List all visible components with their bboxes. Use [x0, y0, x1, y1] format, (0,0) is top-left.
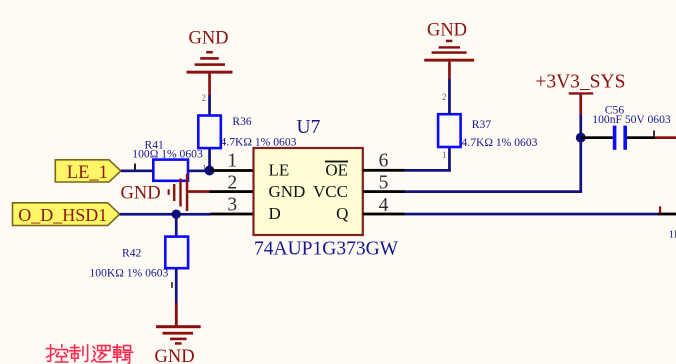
wire net Q to right: [405, 213, 659, 216]
wire O_D_HSD1 to junction: [120, 213, 211, 216]
wire pin 4 stub: [363, 213, 405, 216]
wire pin 5 stub: [363, 190, 405, 193]
svg-text:GND: GND: [427, 21, 467, 41]
port LE_1: [55, 160, 121, 182]
port O_D_HSD1: [13, 203, 120, 226]
svg-text:Q: Q: [336, 204, 348, 223]
R41 pin 1 marker: [134, 164, 136, 170]
junction node net LE_1: [205, 166, 215, 176]
junction node net +3V3_SYS: [576, 133, 586, 143]
svg-text:GND: GND: [188, 29, 228, 49]
wire pin 2 to U7: [210, 190, 254, 193]
wire pin 1 to U7: [210, 169, 254, 172]
svg-text:VCC: VCC: [313, 182, 348, 201]
svg-text:D: D: [269, 204, 281, 223]
resistor R36: [198, 116, 221, 149]
svg-text:1P: 1P: [669, 228, 676, 240]
svg-text:+3V3_SYS: +3V3_SYS: [535, 72, 625, 93]
wire GND to R36: [208, 95, 211, 116]
wire pin 5 to +3V3: [405, 190, 583, 193]
wire pin 6 stub: [363, 169, 405, 172]
pin marker (right edge): [659, 206, 661, 213]
resistor R42: [165, 237, 188, 269]
ground GND at pin 2 (rotated): [121, 174, 210, 211]
IC U7 body: [254, 148, 363, 235]
junction node net D: [172, 210, 181, 219]
text 控制逻辑 (hand drawn strokes): [46, 345, 133, 364]
wire pin 6 to R37: [405, 169, 451, 172]
svg-text:U7: U7: [297, 117, 321, 138]
resistor R37: [438, 114, 461, 147]
wire LE_1 to R41: [121, 170, 154, 173]
svg-text:GND: GND: [121, 183, 161, 203]
svg-text:GND: GND: [155, 347, 195, 364]
svg-text:6: 6: [379, 151, 389, 172]
resistor R41: [153, 160, 188, 181]
svg-text:2: 2: [202, 93, 207, 103]
power +3V3_SYS: [535, 72, 625, 115]
svg-text:1: 1: [227, 150, 237, 171]
wire R42 to GND: [175, 268, 178, 303]
svg-text:O_D_HSD1: O_D_HSD1: [18, 205, 107, 225]
wire Q black segment: [658, 213, 676, 216]
capacitor C56: [613, 126, 627, 150]
svg-text:100KΩ 1% 0603: 100KΩ 1% 0603: [90, 266, 169, 279]
ground GND (top right): [424, 21, 474, 79]
svg-text:1: 1: [442, 150, 447, 160]
svg-text:LE: LE: [269, 160, 290, 179]
svg-text:4.7KΩ 1% 0603: 4.7KΩ 1% 0603: [462, 136, 538, 149]
svg-text:2: 2: [227, 173, 237, 194]
ground GND (bottom): [155, 303, 201, 364]
wire to GND (right edge): [655, 136, 676, 139]
svg-text:GND: GND: [269, 182, 306, 201]
svg-text:R36: R36: [232, 115, 252, 128]
svg-text:2: 2: [442, 92, 447, 102]
svg-text:74AUP1G373GW: 74AUP1G373GW: [254, 239, 399, 260]
C56 pin 2 marker: [653, 131, 655, 137]
svg-text:LE_1: LE_1: [67, 163, 108, 183]
wire +3V3 to junction: [579, 115, 582, 138]
wire R41 to junction: [188, 170, 210, 173]
R42 pin 2 marker: [171, 282, 173, 288]
wire R37 to GND: [448, 79, 451, 114]
wire vertical to R37: [448, 147, 451, 172]
svg-text:R37: R37: [472, 118, 492, 131]
wire C56 to right: [627, 136, 655, 139]
svg-text:100Ω 1% 0603: 100Ω 1% 0603: [132, 148, 203, 161]
svg-text:3: 3: [227, 195, 237, 216]
wire R36 to junction: [208, 148, 211, 171]
wire junction to R42: [175, 214, 178, 237]
wire pin 3 to U7: [211, 213, 254, 216]
wire junction to C56: [581, 136, 613, 139]
ground GND (top left): [187, 29, 233, 96]
wire vertical +3V3 branch: [579, 138, 582, 194]
svg-text:4.7KΩ 1% 0603: 4.7KΩ 1% 0603: [221, 135, 297, 148]
svg-text:OE: OE: [325, 160, 348, 179]
svg-text:100nF 50V 0603: 100nF 50V 0603: [592, 113, 671, 126]
svg-text:R42: R42: [122, 247, 142, 260]
